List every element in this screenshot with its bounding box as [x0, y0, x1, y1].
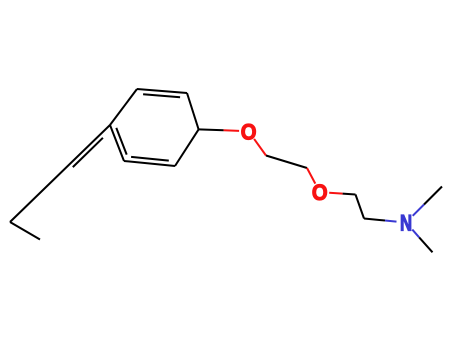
bond O2-CH2c	[329, 193, 355, 195]
double bond inner SW-SE	[131, 157, 169, 161]
svg-text:N: N	[400, 211, 412, 236]
bond C(ring)-O1	[199, 129, 240, 131]
double bond inner NE-NW	[143, 94, 180, 97]
svg-text:O: O	[241, 121, 257, 145]
left chain C=C inner line	[73, 138, 103, 167]
bond CH2b-O2	[307, 168, 315, 184]
benzene ring edge NW-W	[110, 89, 137, 125]
double bond inner W-SW	[116, 128, 126, 155]
benzene ring edge NE-NW	[137, 89, 187, 93]
benzene ring edge W-SW	[110, 125, 124, 161]
bond CH2a-CH2b	[266, 156, 307, 169]
left chain long collinear bonds	[10, 125, 110, 222]
bond CH2d-N	[364, 219, 397, 222]
svg-text:O: O	[312, 181, 328, 205]
bond N-CH3 upper	[413, 187, 442, 216]
benzene ring edge SW-SE	[124, 161, 175, 166]
left chain terminal bond	[10, 222, 40, 240]
benzene ring edge SE-E	[175, 129, 199, 166]
bond CH2c-CH2d	[356, 195, 365, 219]
bond N-CH3 lower	[412, 230, 432, 253]
bond O1-CH2a	[254, 139, 266, 156]
benzene ring edge E-NE	[187, 93, 199, 129]
